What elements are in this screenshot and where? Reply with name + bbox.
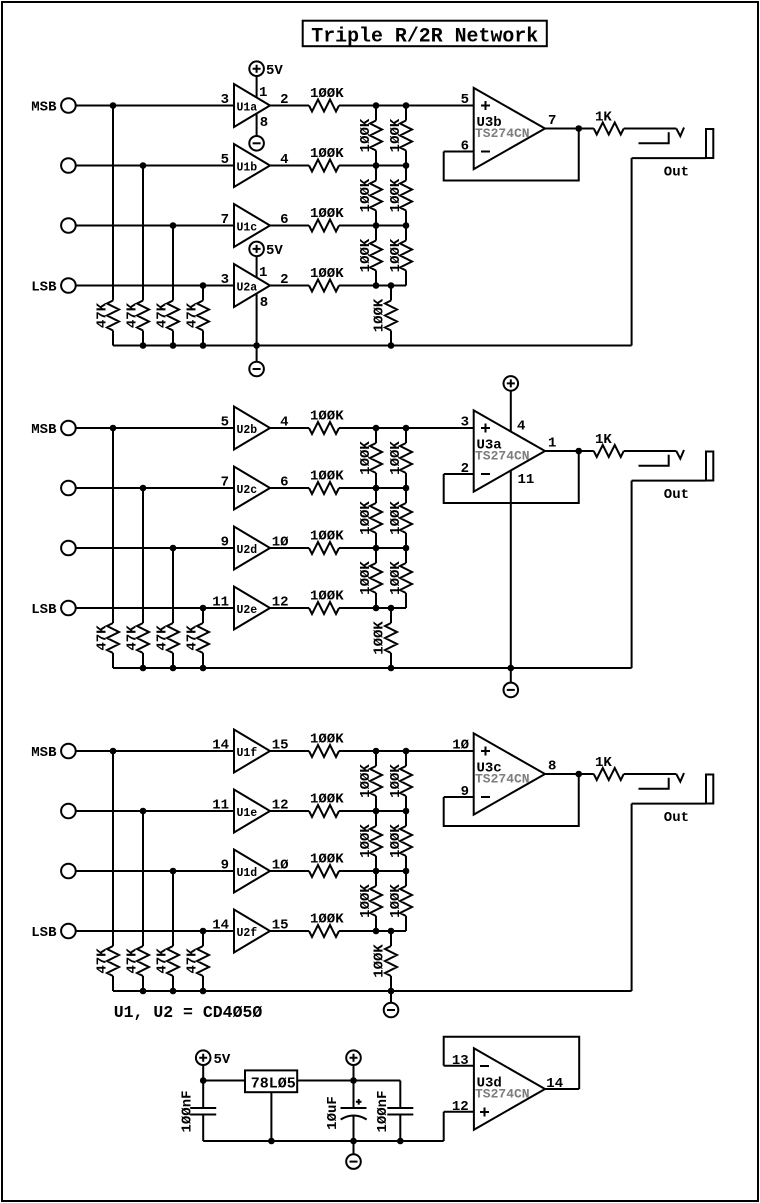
svg-text:1ØØK: 1ØØK: [388, 118, 404, 152]
svg-text:1ØØK: 1ØØK: [310, 732, 344, 748]
svg-text:1ØØK: 1ØØK: [358, 178, 374, 212]
svg-text:12: 12: [272, 798, 289, 814]
svg-text:47K: 47K: [155, 625, 171, 651]
svg-text:5: 5: [221, 415, 229, 431]
svg-text:47K: 47K: [185, 302, 201, 328]
svg-text:1ØØK: 1ØØK: [388, 501, 404, 535]
svg-text:3: 3: [461, 415, 469, 431]
svg-text:MSB: MSB: [31, 100, 57, 116]
svg-text:12: 12: [272, 595, 289, 611]
svg-text:U2f: U2f: [237, 927, 258, 940]
svg-text:47K: 47K: [95, 948, 111, 974]
svg-text:U2b: U2b: [237, 424, 258, 437]
svg-text:1ØØK: 1ØØK: [310, 86, 344, 102]
svg-text:1ØØK: 1ØØK: [358, 441, 374, 475]
svg-text:47K: 47K: [125, 625, 141, 651]
svg-text:TS274CN: TS274CN: [475, 449, 530, 464]
svg-text:1: 1: [259, 265, 267, 281]
svg-text:13: 13: [452, 1053, 469, 1069]
svg-text:47K: 47K: [125, 302, 141, 328]
svg-text:47K: 47K: [185, 948, 201, 974]
svg-text:U2a: U2a: [237, 281, 258, 294]
svg-text:11: 11: [212, 798, 229, 814]
svg-text:1Ø: 1Ø: [272, 858, 289, 874]
svg-text:1ØØK: 1ØØK: [388, 238, 404, 272]
svg-text:1ØØK: 1ØØK: [388, 824, 404, 858]
svg-text:1ØØK: 1ØØK: [310, 409, 344, 425]
svg-text:U1e: U1e: [237, 807, 258, 820]
svg-text:1ØØK: 1ØØK: [358, 501, 374, 535]
svg-text:LSB: LSB: [31, 602, 57, 618]
svg-text:1ØØK: 1ØØK: [388, 178, 404, 212]
svg-text:3: 3: [221, 92, 229, 108]
svg-text:2: 2: [280, 272, 288, 288]
svg-text:11: 11: [212, 595, 229, 611]
svg-text:7: 7: [221, 475, 229, 491]
svg-text:U1c: U1c: [237, 221, 258, 234]
svg-text:U2e: U2e: [237, 604, 258, 617]
svg-text:4: 4: [517, 419, 525, 435]
svg-text:14: 14: [546, 1076, 563, 1092]
svg-text:9: 9: [461, 784, 469, 800]
svg-text:Out: Out: [664, 810, 689, 826]
svg-text:1K: 1K: [595, 432, 612, 448]
svg-text:Out: Out: [664, 165, 689, 181]
svg-text:U2d: U2d: [237, 544, 258, 557]
svg-text:MSB: MSB: [31, 745, 57, 761]
svg-text:1ØØK: 1ØØK: [310, 469, 344, 485]
svg-text:14: 14: [212, 738, 229, 754]
svg-text:1ØØK: 1ØØK: [388, 764, 404, 798]
svg-text:7: 7: [221, 212, 229, 228]
svg-text:8: 8: [548, 759, 556, 775]
svg-text:1: 1: [259, 85, 267, 101]
svg-text:7: 7: [548, 113, 556, 129]
svg-text:6: 6: [280, 475, 288, 491]
svg-text:1ØØK: 1ØØK: [388, 561, 404, 595]
svg-text:TS274CN: TS274CN: [475, 1087, 530, 1102]
svg-text:U1b: U1b: [237, 161, 258, 174]
svg-text:12: 12: [452, 1099, 469, 1115]
svg-text:MSB: MSB: [31, 422, 57, 438]
svg-text:1ØØK: 1ØØK: [310, 206, 344, 222]
svg-text:2: 2: [461, 461, 469, 477]
svg-text:1Ø: 1Ø: [452, 738, 469, 754]
svg-text:1ØØK: 1ØØK: [358, 764, 374, 798]
svg-text:5: 5: [221, 152, 229, 168]
svg-text:1ØuF: 1ØuF: [325, 1096, 341, 1130]
svg-text:1ØØK: 1ØØK: [310, 852, 344, 868]
svg-text:5V: 5V: [214, 1052, 231, 1068]
svg-text:47K: 47K: [185, 625, 201, 651]
svg-text:U1, U2 = CD4Ø5Ø: U1, U2 = CD4Ø5Ø: [114, 1003, 263, 1022]
svg-text:1ØØK: 1ØØK: [310, 589, 344, 605]
svg-text:U1f: U1f: [237, 747, 258, 760]
svg-text:1ØØK: 1ØØK: [388, 884, 404, 918]
svg-text:6: 6: [280, 212, 288, 228]
svg-text:TS274CN: TS274CN: [475, 126, 530, 141]
svg-text:1ØØK: 1ØØK: [358, 884, 374, 918]
svg-text:1ØØK: 1ØØK: [372, 621, 388, 655]
svg-text:15: 15: [272, 918, 289, 934]
svg-text:5: 5: [461, 92, 469, 108]
svg-text:1ØØK: 1ØØK: [310, 529, 344, 545]
svg-text:2: 2: [280, 92, 288, 108]
svg-text:1ØØK: 1ØØK: [372, 298, 388, 332]
svg-text:6: 6: [461, 139, 469, 155]
svg-text:15: 15: [272, 738, 289, 754]
svg-text:3: 3: [221, 272, 229, 288]
svg-text:9: 9: [221, 858, 229, 874]
svg-text:5V: 5V: [266, 243, 283, 259]
svg-text:LSB: LSB: [31, 925, 57, 941]
svg-text:1ØØnF: 1ØØnF: [375, 1090, 391, 1132]
svg-text:1ØØK: 1ØØK: [310, 912, 344, 928]
svg-text:4: 4: [280, 152, 288, 168]
svg-text:1ØØK: 1ØØK: [358, 118, 374, 152]
svg-text:1ØØK: 1ØØK: [358, 824, 374, 858]
svg-text:14: 14: [212, 918, 229, 934]
svg-text:47K: 47K: [155, 302, 171, 328]
svg-text:1ØØK: 1ØØK: [310, 146, 344, 162]
svg-text:U1a: U1a: [237, 101, 258, 114]
svg-text:Out: Out: [664, 487, 689, 503]
svg-text:1ØØK: 1ØØK: [310, 792, 344, 808]
svg-text:1ØØnF: 1ØØnF: [180, 1090, 196, 1132]
svg-text:47K: 47K: [125, 948, 141, 974]
svg-text:TS274CN: TS274CN: [475, 772, 530, 787]
svg-text:11: 11: [518, 472, 535, 488]
svg-text:4: 4: [280, 415, 288, 431]
svg-text:U2c: U2c: [237, 484, 258, 497]
svg-text:Triple R/2R Network: Triple R/2R Network: [311, 26, 538, 49]
svg-text:1Ø: 1Ø: [272, 535, 289, 551]
svg-text:1: 1: [548, 436, 556, 452]
svg-text:1ØØK: 1ØØK: [372, 944, 388, 978]
svg-text:1ØØK: 1ØØK: [388, 441, 404, 475]
svg-text:1ØØK: 1ØØK: [358, 561, 374, 595]
svg-text:5V: 5V: [266, 63, 283, 79]
svg-text:8: 8: [260, 115, 268, 131]
svg-text:1ØØK: 1ØØK: [358, 238, 374, 272]
svg-text:78LØ5: 78LØ5: [251, 1076, 296, 1093]
svg-text:47K: 47K: [155, 948, 171, 974]
svg-text:9: 9: [221, 535, 229, 551]
svg-text:1K: 1K: [595, 110, 612, 126]
svg-text:8: 8: [260, 295, 268, 311]
svg-text:LSB: LSB: [31, 280, 57, 296]
svg-text:47K: 47K: [95, 302, 111, 328]
svg-text:1ØØK: 1ØØK: [310, 266, 344, 282]
svg-text:47K: 47K: [95, 625, 111, 651]
svg-text:1K: 1K: [595, 755, 612, 771]
svg-text:U1d: U1d: [237, 867, 258, 880]
